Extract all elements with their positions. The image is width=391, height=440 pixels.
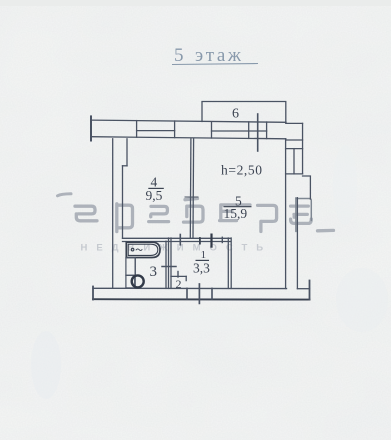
right wall window divider [293, 149, 295, 174]
left wall step [123, 165, 128, 167]
entrance door leaf [198, 284, 200, 303]
window W1 right jamb [174, 121, 176, 138]
wall tick top-left [90, 116, 92, 140]
window W2 mid line [212, 130, 267, 132]
svg-text:h=2,50: h=2,50 [221, 163, 263, 178]
door tick room4 [179, 235, 181, 245]
left wall inner upper [126, 139, 128, 166]
watermark dash [58, 194, 72, 196]
watermark letter e1 [149, 206, 169, 221]
tick on wall 4/5 [185, 196, 198, 198]
sink divider vertical [134, 258, 136, 289]
bottom-left wall tick [92, 287, 94, 300]
right wall inner [285, 139, 287, 289]
watermark underscore [318, 229, 334, 233]
title underline [172, 64, 258, 65]
svg-text:2: 2 [176, 277, 182, 291]
toilet tank [126, 275, 135, 288]
door tick right [221, 237, 223, 242]
entrance door tick right [211, 288, 213, 299]
label room 4 underline [148, 187, 164, 189]
svg-text:1: 1 [201, 249, 207, 261]
room1 right wall [227, 238, 229, 288]
pier bottom line [286, 139, 303, 141]
toilet bowl [132, 275, 144, 287]
bathroom right wall [165, 241, 167, 288]
balcony door tick [257, 114, 259, 151]
left wall outer [112, 139, 114, 288]
watermark a2 frame [296, 199, 311, 221]
right wall window top jamb [286, 148, 303, 150]
bathtub [126, 242, 160, 257]
right wall step [303, 176, 311, 199]
pier jamb [211, 122, 213, 138]
right wall window bottom jamb [286, 173, 303, 175]
room2 top line [171, 275, 186, 277]
room number labels [146, 107, 263, 292]
label room 5 underline [224, 206, 252, 208]
svg-text:5: 5 [174, 45, 184, 66]
watermark letter a1 [75, 206, 97, 221]
watermark letter a2 [291, 206, 312, 223]
watermark a2 descender [295, 198, 297, 232]
balcony 6 outline [202, 102, 286, 124]
svg-text:этаж: этаж [195, 45, 244, 66]
left wall inner lower [122, 166, 124, 238]
svg-text:15,9: 15,9 [224, 206, 248, 221]
watermark big letters [58, 194, 334, 232]
floor line (bottom wall top) [93, 287, 287, 289]
corridor top wall [123, 237, 231, 239]
bottom-right wall tick [309, 281, 311, 300]
right wall outer lower [296, 198, 298, 289]
scan smudge bottom-left [31, 331, 61, 399]
door tick room5 [210, 235, 212, 247]
entrance door tick left [186, 288, 188, 299]
bottom wall bottom line [93, 298, 310, 300]
niche bottom right segment [297, 288, 309, 290]
top wall outer line right extension [286, 122, 303, 124]
watermark letter p2 [258, 205, 277, 231]
watermark letter p1 [117, 204, 133, 232]
window W2 divider [248, 122, 250, 138]
bathroom door tick [162, 266, 176, 268]
wall between rooms 4 and 5 [189, 139, 192, 238]
top wall inner line [91, 137, 286, 139]
top wall outer line [91, 120, 286, 122]
watermark letter v1 [184, 199, 204, 223]
window W2 right jamb [266, 122, 268, 139]
svg-text:НЕДВИЖИМОСТЬ: НЕДВИЖИМОСТЬ [81, 242, 273, 253]
window W1 mid line [137, 130, 175, 132]
label room 1 underline [196, 259, 210, 261]
svg-text:3,3: 3,3 [193, 261, 210, 276]
right wall outer upper [302, 123, 304, 173]
sink box [126, 258, 135, 276]
watermark letter e2 [220, 205, 250, 221]
window W1 left jamb [136, 121, 138, 138]
room2 tick [177, 272, 179, 278]
svg-text:6: 6 [232, 107, 239, 122]
svg-text:3: 3 [150, 264, 158, 280]
scan mottling right margin [336, 268, 388, 332]
room2 corner [185, 276, 187, 280]
bathtub faucet [131, 248, 142, 251]
door tick small [199, 238, 201, 244]
title: 5 этаж [174, 45, 244, 66]
svg-text:9,5: 9,5 [146, 188, 163, 203]
